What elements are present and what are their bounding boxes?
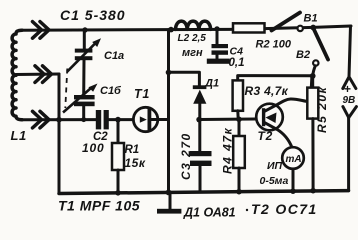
svg-text:C1a: C1a [104,50,124,62]
svg-text:Д1: Д1 [204,78,219,90]
svg-text:0,1: 0,1 [229,57,245,69]
svg-text:9В: 9В [343,95,356,106]
svg-text:R3 4,7к: R3 4,7к [245,84,289,98]
svg-text:C4: C4 [230,46,244,58]
svg-text:R4 47к: R4 47к [221,127,235,174]
svg-text:R5 20к: R5 20к [315,86,329,133]
svg-text:0-5ма: 0-5ма [260,175,289,187]
svg-text:B1: B1 [304,13,318,25]
svg-text:C1б: C1б [100,85,122,97]
svg-text:mA: mA [286,154,302,165]
svg-text:C1 5-380: C1 5-380 [60,7,126,23]
svg-text:T2: T2 [258,129,274,143]
svg-text:Д1 ОА81: Д1 ОА81 [183,206,236,220]
svg-text:+: + [344,82,351,96]
svg-text:ИП: ИП [267,160,283,172]
svg-text:B2: B2 [296,49,310,61]
svg-text:R2 100: R2 100 [256,39,292,51]
svg-text:T2 ОС71: T2 ОС71 [251,201,318,217]
svg-text:C3 270: C3 270 [179,132,193,180]
svg-text:R1: R1 [125,144,140,156]
svg-text:15к: 15к [125,156,146,170]
svg-text:100: 100 [82,141,104,155]
svg-text:L2 2,5: L2 2,5 [178,33,207,44]
svg-text:мгн: мгн [182,47,203,59]
svg-text:T1 MPF 105: T1 MPF 105 [58,198,140,214]
svg-text:T1: T1 [134,87,150,101]
svg-text:L1: L1 [11,128,27,143]
